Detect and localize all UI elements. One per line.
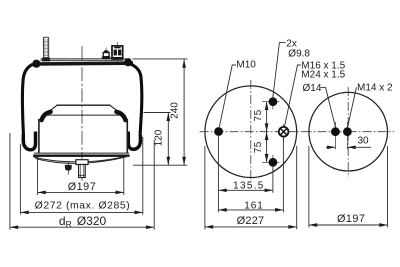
extension line bottom (240/120) (133, 164, 187, 166)
M14 x 2 hole right (343, 122, 352, 149)
small bottom bolt head (65, 162, 72, 175)
dimension line Ø197 (38, 191, 124, 193)
svg-text:75: 75 (253, 141, 264, 153)
extension lines Ø197 plan (308, 146, 310, 227)
arrowheads Ø197 (38, 191, 46, 195)
piston cap base line (46, 114, 120, 116)
svg-text:161: 161 (244, 200, 263, 211)
dimension line 120 (167, 113, 169, 165)
svg-text:135.5: 135.5 (233, 181, 265, 192)
vertical centerline middle circle (250, 80, 252, 184)
M10 hole (214, 127, 223, 136)
horizontal centerline right circle (303, 131, 394, 133)
leader Ø14 (320, 88, 335, 127)
extension lines Ø197 (37, 157, 39, 195)
extension line air fitting (282, 137, 284, 212)
leader M10 (219, 65, 236, 127)
svg-text:Ø227: Ø227 (237, 215, 265, 227)
bellows outer wall right (130, 64, 142, 136)
svg-text:120: 120 (154, 129, 165, 146)
leader M16/M24 (285, 65, 301, 127)
svg-text:30: 30 (357, 136, 369, 147)
dimension line 30 (326, 145, 371, 149)
extension line Ø9.8 holes (272, 167, 274, 193)
bellows rolling lobe left (23, 132, 35, 150)
svg-text:M10: M10 (236, 59, 256, 70)
piston shoulder left (42, 112, 51, 120)
dimension line Ø272 (20, 211, 142, 213)
piston body side right (126, 119, 128, 153)
vertical centerline right circle (347, 87, 349, 178)
dimension line 75/75 chain (266, 102, 268, 163)
stud (threaded pin) on top plate (42, 37, 50, 61)
extension lines Ø320 (9, 133, 11, 230)
svg-text:Ø272 (max. Ø285): Ø272 (max. Ø285) (35, 201, 131, 212)
left bead roll (32, 60, 40, 68)
small air fitting on plate (102, 48, 111, 61)
2x Ø9.8 hole upper (262, 95, 280, 110)
2x Ø9.8 hole lower (262, 155, 280, 170)
piston bottom dish (34, 155, 129, 163)
piston bottom rim (33, 153, 129, 156)
svg-text:Ø14: Ø14 (303, 83, 322, 94)
center mounting bolt (76, 160, 88, 178)
leader 2x Ø9.8 (273, 43, 286, 97)
bellows outer wall left (22, 64, 32, 136)
top plate surface lines (41, 59, 131, 61)
arrowheads 240 (182, 60, 186, 68)
extension lines Ø272 (19, 144, 21, 215)
arrowheads Ø227 (205, 225, 213, 229)
dimension line Ø227 (205, 226, 297, 228)
svg-text:240: 240 (170, 102, 181, 119)
svg-text:Ø9.8: Ø9.8 (288, 48, 310, 59)
extension line M10 hole (217, 136, 219, 212)
dimension line dR Ø320 (10, 226, 154, 228)
extension lines Ø227 (204, 146, 206, 229)
dimension line 240 (183, 60, 185, 166)
arrowheads Ø197 plan (309, 223, 317, 227)
svg-text:75: 75 (253, 109, 264, 121)
arrowheads 75/75 (265, 102, 269, 110)
combination valve block on plate (112, 42, 123, 61)
extension line top (240) (133, 58, 188, 60)
centerline of side view (81, 46, 83, 181)
leader M14 x 2 (348, 87, 357, 127)
arrowheads Ø320 (10, 225, 18, 229)
svg-text:M14 x 2: M14 x 2 (357, 83, 393, 94)
top plate circle Ø197 (309, 92, 388, 171)
arrowheads 135.5 (218, 188, 226, 192)
bellows rolling lobe right (128, 132, 140, 150)
arrowheads 161 (218, 208, 226, 212)
dimension line 135.5 (218, 189, 273, 191)
horizontal centerline middle circle (200, 131, 303, 133)
piston body side left (38, 119, 40, 153)
dimension line Ø197 plan (309, 224, 388, 226)
right bead roll (124, 58, 132, 66)
Ø14 hole left (331, 122, 340, 149)
piston top cap (48, 105, 118, 112)
svg-text:Ø197: Ø197 (337, 213, 365, 225)
piston shoulder right (116, 112, 125, 120)
bottom plate circle Ø227 (205, 86, 297, 178)
extension line piston top (120) (144, 112, 171, 114)
svg-text:Ø197: Ø197 (68, 181, 96, 193)
air fitting M16/M24 crossed circle (276, 124, 291, 140)
arrowheads 120 (166, 113, 170, 121)
top plate crimp band (33, 61, 133, 65)
dimension line 161 (218, 209, 283, 211)
svg-text:M24 x 1.5: M24 x 1.5 (301, 70, 345, 81)
arrowheads Ø272 (20, 211, 28, 215)
